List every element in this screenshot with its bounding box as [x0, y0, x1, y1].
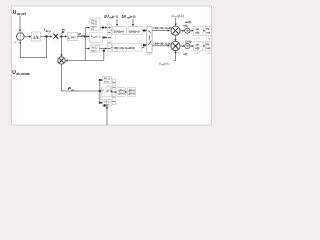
product X1: [52, 33, 59, 41]
node P bar label: [62, 30, 65, 35]
svg-text:U(t)=U(t-1)+ΔU: U(t)=U(t-1)+ΔU: [154, 26, 173, 30]
wire switch to product U1, formula label 1: [152, 29, 170, 31]
node idc label: [44, 28, 51, 33]
junction to product b: [60, 35, 62, 37]
wire gain to product with junction idc: [41, 35, 53, 38]
wire into bottom memory bottom: [100, 102, 103, 104]
svg-text:LPF: LPF: [68, 35, 76, 40]
svg-text:limit2: limit2: [194, 52, 200, 55]
svg-text:1/k: 1/k: [33, 35, 40, 40]
svg-text:ΔU<0: ΔU<0: [129, 93, 136, 96]
wire between product U1 and U2: [174, 35, 176, 41]
svg-text:(t-1): (t-1): [96, 34, 101, 38]
wire LPF to Pref block, node Pm: [77, 35, 90, 38]
svg-text:limit1: limit1: [194, 37, 200, 40]
node uref(t) label top right: [172, 14, 184, 19]
mux M2: [112, 79, 115, 105]
block R1b output port: [205, 26, 211, 35]
wire Udc,ref down into sum: [19, 16, 21, 32]
sum S1: [14, 28, 24, 45]
svg-text:m: m: [71, 88, 74, 92]
wire bottom branch vertical x100: [99, 80, 101, 103]
mux M1: [107, 24, 111, 52]
svg-text:ΔU(t)>0: ΔU(t)>0: [114, 29, 125, 33]
memory block top (P(t-1) store): [90, 18, 100, 31]
wire R1a to R1b: [203, 30, 205, 32]
svg-text:(t-1): (t-1): [178, 14, 184, 18]
wire sum A2 to block R2a: [190, 45, 194, 47]
wire label2 down into cell B: [132, 19, 134, 26]
svg-text:(t-2): (t-2): [130, 15, 136, 19]
svg-text:dc,ref: dc,ref: [17, 12, 27, 16]
wire sum to gain: [24, 35, 32, 37]
cell A condition block: [113, 27, 127, 35]
svg-text:out: out: [206, 31, 210, 35]
svg-text:ΔU>0: ΔU>0: [118, 93, 125, 96]
svg-text:u: u: [172, 14, 174, 18]
block Pref(t-1) main: [90, 33, 103, 43]
block R2b output port: [205, 42, 211, 51]
svg-text:(t-1): (t-1): [164, 62, 169, 66]
node Udc,meas label bottom left: [12, 70, 29, 76]
wire uref(t) down into product U1: [175, 18, 177, 26]
cell B condition block: [128, 27, 142, 35]
node uref(t-1) label: [159, 62, 170, 67]
gain 1/k: [32, 32, 41, 41]
svg-text:u(t): u(t): [195, 31, 199, 35]
svg-text:ΔU: ΔU: [104, 15, 109, 19]
wire mux M2 to block B1: [115, 91, 117, 93]
wire uref(t-1) up into product U2: [174, 51, 177, 61]
wire R2a to R2b: [203, 45, 205, 47]
product U2 (circle X): [171, 41, 180, 50]
block B1 compare: [117, 88, 125, 97]
wire Pm branch joins feedback: [84, 59, 86, 62]
wire product to LPF: [59, 35, 67, 37]
svg-text:out2: out2: [206, 52, 211, 55]
wire switch to product U2, formula label 2: [152, 45, 170, 47]
svg-text:U(t)=U(t-1)-ΔU: U(t)=U(t-1)-ΔU: [154, 41, 172, 45]
svg-text:m: m: [81, 34, 84, 38]
wire cell B to switch: [142, 29, 147, 31]
svg-text:dc,meas: dc,meas: [16, 72, 29, 76]
svg-text:out1: out1: [206, 37, 211, 40]
labels above sum A1: [183, 20, 191, 28]
svg-text:ΔU(t)<0: ΔU(t)<0: [129, 29, 140, 33]
svg-text:u(t): u(t): [183, 24, 187, 28]
wire product U2 to sum A2: [180, 45, 185, 47]
block B2 compare: [127, 88, 135, 97]
svg-text:P2: P2: [206, 43, 210, 47]
sum A1: [185, 27, 190, 34]
wire label1 down into cell A: [116, 19, 118, 26]
svg-text:P1: P1: [206, 27, 210, 31]
wire mux to formula cell: [111, 47, 112, 49]
svg-text:u(t): u(t): [183, 52, 187, 56]
svg-text:ΔU: ΔU: [122, 15, 127, 19]
svg-text:(t-1): (t-1): [112, 15, 118, 19]
svg-text:u(t): u(t): [195, 46, 199, 50]
svg-text:+: +: [14, 41, 16, 45]
memory block bottom-top: [103, 77, 111, 84]
svg-text:mem: mem: [104, 81, 110, 84]
node Pm label: [78, 32, 84, 38]
block Pref(t-1) bottom main: [102, 87, 112, 96]
switch SW1: [147, 27, 152, 53]
wire feedback from mux junction into product B right: [66, 51, 104, 62]
wire branch into memory top block: [85, 27, 90, 29]
junction after memory top: [100, 26, 107, 28]
node Udc,ref label: [13, 10, 27, 16]
wire bottom memory out down: [103, 104, 108, 125]
filter LPF: [67, 32, 77, 40]
formula cell wide: [113, 44, 142, 52]
wire Pref block to mux: [102, 36, 107, 38]
svg-text:ΔU(t): ΔU(t): [185, 40, 191, 44]
svg-text:sat: sat: [195, 43, 199, 47]
product B (circle X): [58, 57, 65, 64]
svg-text:SW1: SW1: [146, 53, 152, 56]
svg-text:(t-1): (t-1): [107, 88, 112, 92]
wire branch into memory bottom block: [85, 48, 90, 50]
memory block bottom-bottom: [103, 99, 111, 106]
svg-text:sat: sat: [195, 27, 199, 31]
sum A2: [185, 43, 190, 48]
wire junction P to product B top: [60, 37, 62, 57]
block R2a saturation: [194, 42, 203, 51]
svg-text:P: P: [62, 30, 65, 35]
svg-text:mem: mem: [91, 49, 97, 52]
wire feedback idc down-left into sum: [19, 37, 46, 58]
wire product B down and right to bottom block: [62, 64, 103, 92]
wire Pm branch vertical x85: [84, 28, 86, 61]
product U1 (circle X): [171, 26, 180, 35]
svg-text:ΔU(t): ΔU(t): [185, 20, 191, 24]
node Pm label bottom: [68, 86, 74, 92]
wire mux to cell A: [111, 30, 112, 32]
svg-text:out: out: [206, 46, 210, 50]
svg-text:U(t)=U(t-1)+ΔU(t): U(t)=U(t-1)+ΔU(t): [114, 46, 135, 50]
wire product U1 to sum A1: [180, 30, 185, 32]
block R1a saturation: [194, 26, 203, 35]
label dUref(t-1): [104, 15, 118, 20]
panel frame: [12, 6, 212, 125]
wire formula cell to switch: [142, 44, 147, 48]
label dUref(t-2): [122, 15, 136, 20]
wire B1 to B2: [125, 91, 127, 93]
wire into bottom memory top: [100, 79, 103, 81]
wire sum A1 to block R1a: [190, 30, 194, 32]
wire main to mux M2: [111, 91, 112, 93]
svg-text:dc,s: dc,s: [46, 29, 52, 33]
memory block bottom (Uref(t-1) store): [90, 45, 99, 52]
svg-text:-: -: [14, 28, 15, 32]
labels above sum A2: [185, 40, 191, 44]
wire memory bottom to mux with junction: [99, 48, 107, 53]
